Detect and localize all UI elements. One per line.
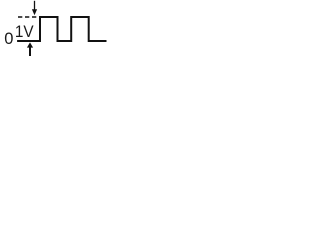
svg-text:1V: 1V [15,23,34,41]
svg-text:0: 0 [4,30,13,48]
